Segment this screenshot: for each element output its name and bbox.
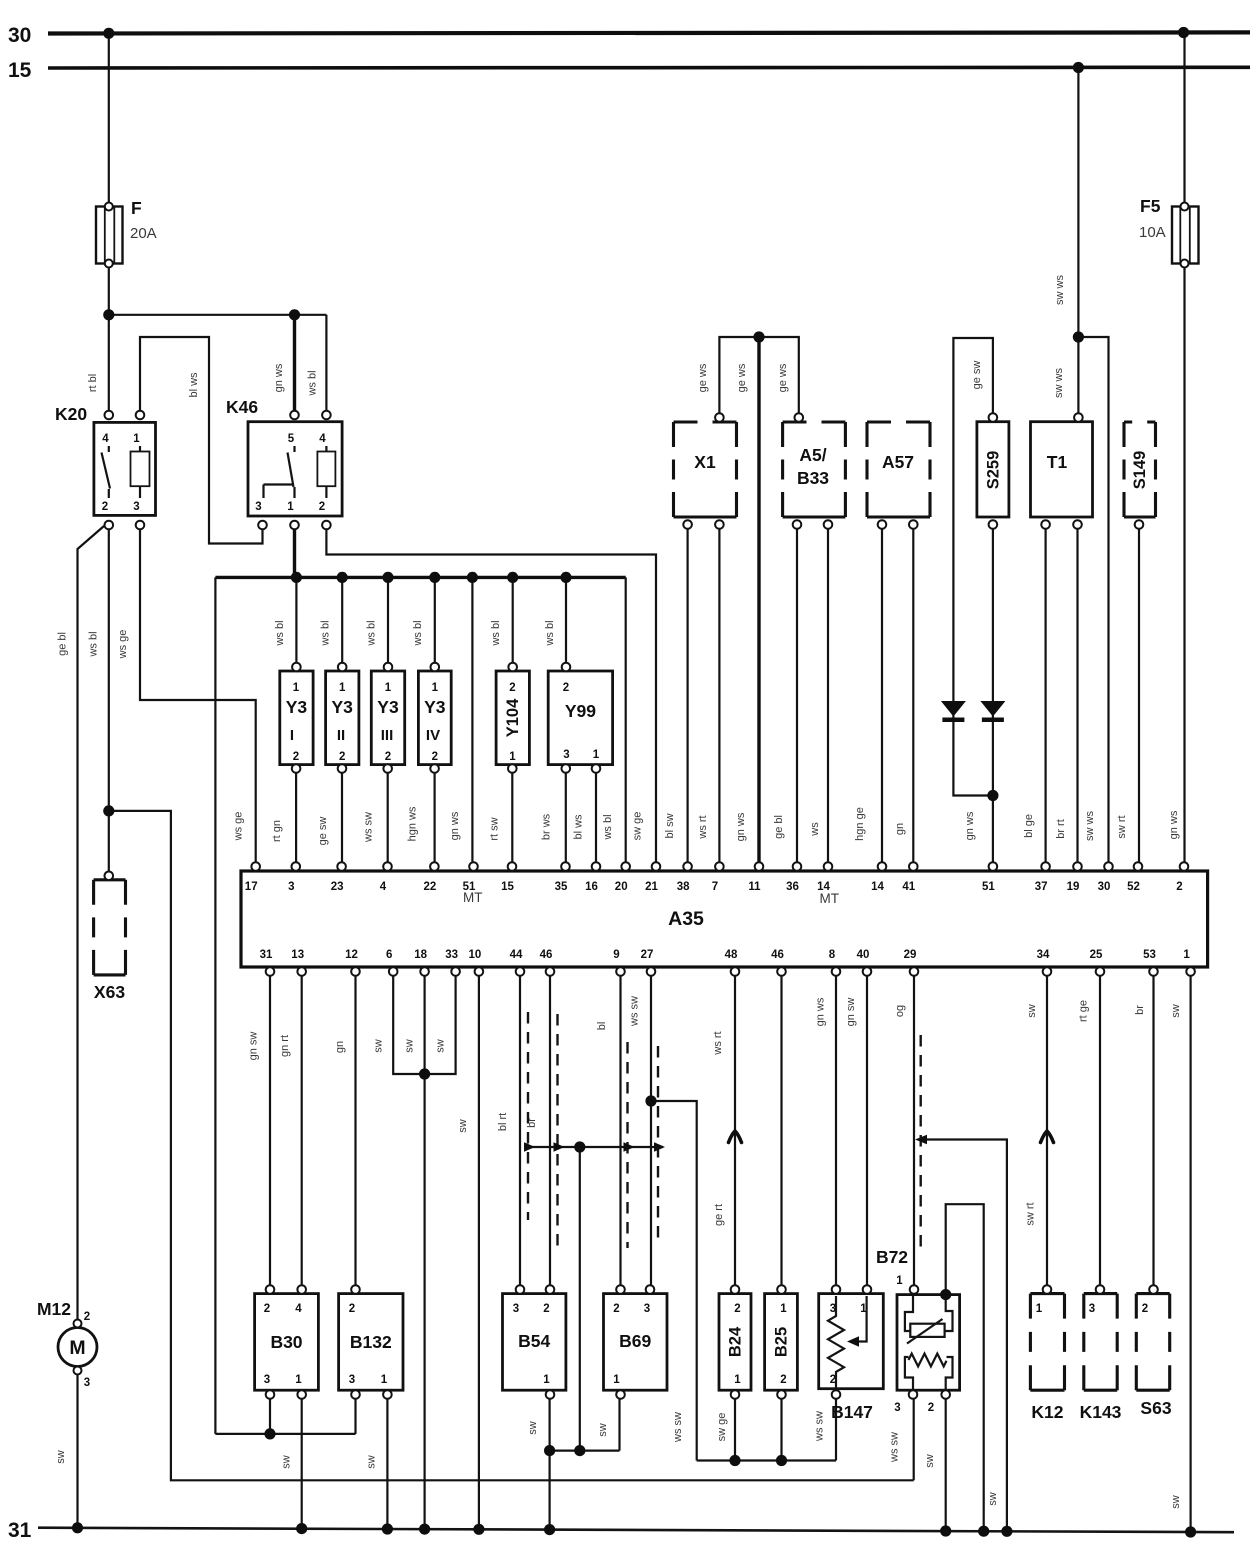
svg-text:2: 2 <box>613 1303 619 1315</box>
svg-text:ws bl: ws bl <box>274 620 286 646</box>
svg-text:ws ge: ws ge <box>117 630 129 660</box>
svg-text:3: 3 <box>644 1303 650 1315</box>
svg-text:B25: B25 <box>773 1327 791 1357</box>
svg-text:2: 2 <box>1142 1303 1148 1315</box>
svg-text:sw: sw <box>457 1119 469 1133</box>
svg-text:31: 31 <box>260 949 273 961</box>
svg-text:K46: K46 <box>226 397 258 417</box>
svg-text:Y104: Y104 <box>504 698 522 737</box>
svg-text:bl ge: bl ge <box>1023 814 1035 838</box>
svg-text:B147: B147 <box>831 1402 873 1422</box>
svg-text:MT: MT <box>820 891 840 906</box>
svg-text:A35: A35 <box>668 908 704 930</box>
svg-text:3: 3 <box>894 1402 900 1414</box>
svg-text:sw: sw <box>1026 1004 1038 1018</box>
svg-text:rt bl: rt bl <box>87 374 99 392</box>
svg-text:B69: B69 <box>619 1331 651 1351</box>
svg-text:M12: M12 <box>37 1299 71 1319</box>
svg-text:sw ge: sw ge <box>632 812 644 841</box>
svg-text:1: 1 <box>734 1374 741 1386</box>
svg-text:B30: B30 <box>270 1332 302 1352</box>
svg-text:S149: S149 <box>1131 451 1149 490</box>
svg-text:37: 37 <box>1035 881 1048 893</box>
svg-text:13: 13 <box>291 949 304 961</box>
svg-text:sw: sw <box>527 1421 539 1435</box>
svg-text:sw: sw <box>1170 1004 1182 1018</box>
svg-text:3: 3 <box>264 1374 270 1386</box>
svg-text:bl: bl <box>596 1022 608 1031</box>
svg-text:31: 31 <box>8 1519 32 1542</box>
svg-text:sw: sw <box>435 1039 447 1053</box>
svg-text:K20: K20 <box>55 404 87 424</box>
svg-text:ws bl: ws bl <box>88 631 100 657</box>
svg-text:4: 4 <box>380 881 387 893</box>
svg-text:ge sw: ge sw <box>317 817 329 846</box>
svg-text:gn ws: gn ws <box>735 812 747 841</box>
svg-text:1: 1 <box>295 1374 302 1386</box>
svg-text:9: 9 <box>613 949 619 961</box>
svg-text:IV: IV <box>426 727 440 744</box>
svg-text:ws bl: ws bl <box>320 620 332 646</box>
svg-text:ge ws: ge ws <box>736 363 748 392</box>
svg-text:16: 16 <box>585 881 598 893</box>
svg-text:gn ws: gn ws <box>273 363 285 392</box>
svg-text:1: 1 <box>385 682 392 694</box>
svg-text:1: 1 <box>1183 949 1190 961</box>
svg-text:2: 2 <box>349 1303 355 1315</box>
svg-text:ge rt: ge rt <box>713 1204 725 1226</box>
svg-text:ws bl: ws bl <box>544 620 556 646</box>
svg-text:rt ge: rt ge <box>1078 1000 1090 1022</box>
svg-text:35: 35 <box>555 881 568 893</box>
svg-text:3: 3 <box>255 501 261 513</box>
svg-text:2: 2 <box>543 1303 549 1315</box>
svg-text:sw: sw <box>373 1039 385 1053</box>
svg-text:hgn ws: hgn ws <box>407 806 419 841</box>
svg-text:ws sw: ws sw <box>889 1432 901 1463</box>
svg-text:2: 2 <box>928 1402 934 1414</box>
svg-text:3: 3 <box>513 1303 519 1315</box>
svg-text:3: 3 <box>84 1377 90 1389</box>
svg-text:40: 40 <box>857 949 870 961</box>
svg-text:27: 27 <box>641 949 654 961</box>
svg-text:S63: S63 <box>1140 1398 1171 1418</box>
svg-text:12: 12 <box>345 949 358 961</box>
svg-text:gn sw: gn sw <box>248 1032 260 1061</box>
svg-text:sw ws: sw ws <box>1053 368 1065 398</box>
svg-text:52: 52 <box>1127 881 1140 893</box>
svg-text:A5/: A5/ <box>799 445 826 465</box>
svg-text:gn ws: gn ws <box>815 997 827 1026</box>
svg-text:41: 41 <box>902 881 915 893</box>
svg-text:K12: K12 <box>1031 1402 1063 1422</box>
svg-text:10A: 10A <box>1139 224 1166 241</box>
svg-text:6: 6 <box>386 949 392 961</box>
svg-text:rt sw: rt sw <box>489 817 501 840</box>
svg-text:1: 1 <box>432 682 439 694</box>
svg-text:sw ws: sw ws <box>1054 275 1066 305</box>
svg-text:III: III <box>381 727 394 744</box>
svg-text:ge bl: ge bl <box>773 815 785 839</box>
svg-text:sw: sw <box>987 1492 999 1506</box>
svg-text:51: 51 <box>982 881 995 893</box>
svg-text:1: 1 <box>293 682 300 694</box>
svg-text:8: 8 <box>829 949 836 961</box>
svg-text:36: 36 <box>786 881 799 893</box>
svg-text:ws: ws <box>809 822 821 837</box>
svg-text:18: 18 <box>414 949 427 961</box>
svg-text:gn ws: gn ws <box>1168 810 1180 839</box>
svg-text:34: 34 <box>1037 949 1050 961</box>
svg-text:ge ws: ge ws <box>697 363 709 392</box>
svg-text:X63: X63 <box>94 982 125 1002</box>
svg-text:B132: B132 <box>350 1332 392 1352</box>
svg-text:ws sw: ws sw <box>672 1412 684 1443</box>
svg-text:sw: sw <box>366 1455 378 1469</box>
svg-text:ws sw: ws sw <box>814 1411 826 1442</box>
svg-text:20A: 20A <box>130 225 157 242</box>
svg-text:5: 5 <box>288 433 295 445</box>
svg-text:rt gn: rt gn <box>271 820 283 842</box>
svg-text:X1: X1 <box>694 452 716 472</box>
svg-text:1: 1 <box>896 1275 903 1287</box>
svg-text:46: 46 <box>771 949 784 961</box>
svg-text:2: 2 <box>563 682 569 694</box>
svg-text:br: br <box>526 1118 538 1128</box>
svg-text:bl sw: bl sw <box>664 813 676 838</box>
svg-text:Y99: Y99 <box>565 701 596 721</box>
svg-text:48: 48 <box>725 949 738 961</box>
svg-text:22: 22 <box>424 881 437 893</box>
svg-text:S259: S259 <box>984 451 1002 490</box>
svg-text:sw: sw <box>1170 1495 1182 1509</box>
svg-text:2: 2 <box>509 682 515 694</box>
svg-text:1: 1 <box>381 1374 388 1386</box>
svg-text:4: 4 <box>295 1303 302 1315</box>
svg-text:1: 1 <box>780 1303 787 1315</box>
svg-text:sw: sw <box>55 1450 67 1464</box>
svg-text:1: 1 <box>613 1374 620 1386</box>
svg-text:A57: A57 <box>882 452 914 472</box>
svg-text:br rt: br rt <box>1055 819 1067 839</box>
svg-text:3: 3 <box>563 749 569 761</box>
svg-text:sw ge: sw ge <box>716 1413 728 1442</box>
svg-text:1: 1 <box>593 749 600 761</box>
svg-text:ws bl: ws bl <box>412 620 424 646</box>
svg-text:21: 21 <box>645 881 658 893</box>
svg-text:Y3: Y3 <box>286 697 308 717</box>
svg-text:M: M <box>69 1337 85 1359</box>
svg-text:2: 2 <box>432 751 438 763</box>
svg-text:30: 30 <box>1098 881 1111 893</box>
svg-text:Y3: Y3 <box>377 697 399 717</box>
svg-text:gn: gn <box>894 823 906 835</box>
svg-text:Y3: Y3 <box>331 697 353 717</box>
svg-text:F5: F5 <box>1140 196 1161 216</box>
svg-text:ws bl: ws bl <box>307 370 319 396</box>
svg-text:2: 2 <box>339 751 345 763</box>
svg-text:2: 2 <box>734 1303 740 1315</box>
svg-text:46: 46 <box>540 949 553 961</box>
svg-text:bl rt: bl rt <box>497 1113 509 1131</box>
svg-text:ge sw: ge sw <box>971 361 983 390</box>
svg-text:2: 2 <box>1176 881 1182 893</box>
svg-text:2: 2 <box>293 751 299 763</box>
svg-text:1: 1 <box>1036 1303 1043 1315</box>
svg-text:51: 51 <box>463 881 476 893</box>
svg-text:B33: B33 <box>797 468 829 488</box>
svg-text:ws ge: ws ge <box>233 812 245 842</box>
svg-text:K143: K143 <box>1080 1402 1122 1422</box>
svg-text:4: 4 <box>102 433 109 445</box>
svg-text:sw: sw <box>597 1423 609 1437</box>
svg-text:3: 3 <box>288 881 294 893</box>
svg-text:2: 2 <box>385 751 391 763</box>
svg-text:15: 15 <box>8 59 32 82</box>
svg-text:3: 3 <box>830 1303 836 1315</box>
svg-text:1: 1 <box>509 751 516 763</box>
svg-text:38: 38 <box>677 881 690 893</box>
svg-text:ws bl: ws bl <box>366 620 378 646</box>
svg-text:gn ws: gn ws <box>964 811 976 840</box>
svg-text:sw rt: sw rt <box>1025 1202 1037 1225</box>
svg-text:23: 23 <box>331 881 344 893</box>
svg-text:B54: B54 <box>518 1331 550 1351</box>
svg-text:14: 14 <box>871 881 884 893</box>
svg-text:I: I <box>290 727 294 744</box>
svg-text:sw rt: sw rt <box>1116 815 1128 838</box>
svg-text:11: 11 <box>748 881 761 893</box>
svg-text:F: F <box>131 198 142 218</box>
svg-text:7: 7 <box>712 881 718 893</box>
svg-text:Y3: Y3 <box>424 697 446 717</box>
svg-text:3: 3 <box>349 1374 355 1386</box>
svg-text:3: 3 <box>133 501 139 513</box>
svg-text:bl ws: bl ws <box>188 372 200 398</box>
svg-text:1: 1 <box>543 1374 550 1386</box>
svg-text:4: 4 <box>319 433 326 445</box>
svg-text:17: 17 <box>245 881 258 893</box>
svg-text:ws sw: ws sw <box>363 812 375 843</box>
svg-text:ge ws: ge ws <box>777 363 789 392</box>
svg-text:II: II <box>337 727 345 744</box>
svg-text:2: 2 <box>780 1374 786 1386</box>
svg-text:bl ws: bl ws <box>573 814 585 840</box>
svg-text:3: 3 <box>1089 1303 1095 1315</box>
svg-text:2: 2 <box>264 1303 270 1315</box>
svg-text:gn ws: gn ws <box>449 811 461 840</box>
svg-text:gn rt: gn rt <box>279 1035 291 1057</box>
svg-text:ws bl: ws bl <box>602 814 614 840</box>
svg-text:B24: B24 <box>727 1326 745 1357</box>
svg-text:B72: B72 <box>876 1247 908 1267</box>
svg-text:hgn ge: hgn ge <box>854 807 866 841</box>
svg-text:29: 29 <box>904 949 917 961</box>
svg-text:15: 15 <box>501 881 514 893</box>
svg-text:14: 14 <box>817 881 830 893</box>
svg-text:ge bl: ge bl <box>57 632 69 656</box>
svg-text:20: 20 <box>615 881 628 893</box>
svg-text:br: br <box>1134 1005 1146 1015</box>
svg-text:33: 33 <box>445 949 458 961</box>
svg-text:2: 2 <box>319 501 325 513</box>
svg-text:ws rt: ws rt <box>697 815 709 839</box>
svg-text:30: 30 <box>8 24 31 47</box>
svg-text:T1: T1 <box>1047 452 1068 472</box>
svg-text:2: 2 <box>84 1311 90 1323</box>
svg-text:gn sw: gn sw <box>845 998 857 1027</box>
svg-text:53: 53 <box>1143 949 1156 961</box>
svg-text:44: 44 <box>510 949 523 961</box>
svg-text:25: 25 <box>1090 949 1103 961</box>
svg-text:sw: sw <box>924 1454 936 1468</box>
svg-text:ws bl: ws bl <box>490 620 502 646</box>
svg-text:1: 1 <box>339 682 346 694</box>
svg-text:gn: gn <box>334 1041 346 1053</box>
svg-text:sw: sw <box>404 1039 416 1053</box>
svg-text:sw ws: sw ws <box>1084 811 1096 841</box>
svg-text:2: 2 <box>830 1374 836 1386</box>
svg-text:19: 19 <box>1067 881 1080 893</box>
svg-text:10: 10 <box>469 949 482 961</box>
svg-text:1: 1 <box>860 1303 867 1315</box>
svg-text:ws rt: ws rt <box>712 1031 724 1055</box>
svg-text:2: 2 <box>102 501 108 513</box>
svg-text:1: 1 <box>133 433 140 445</box>
svg-text:sw: sw <box>281 1455 293 1469</box>
svg-text:ws sw: ws sw <box>629 996 641 1027</box>
svg-text:1: 1 <box>287 501 294 513</box>
svg-text:og: og <box>894 1005 906 1017</box>
svg-text:br ws: br ws <box>541 813 553 840</box>
